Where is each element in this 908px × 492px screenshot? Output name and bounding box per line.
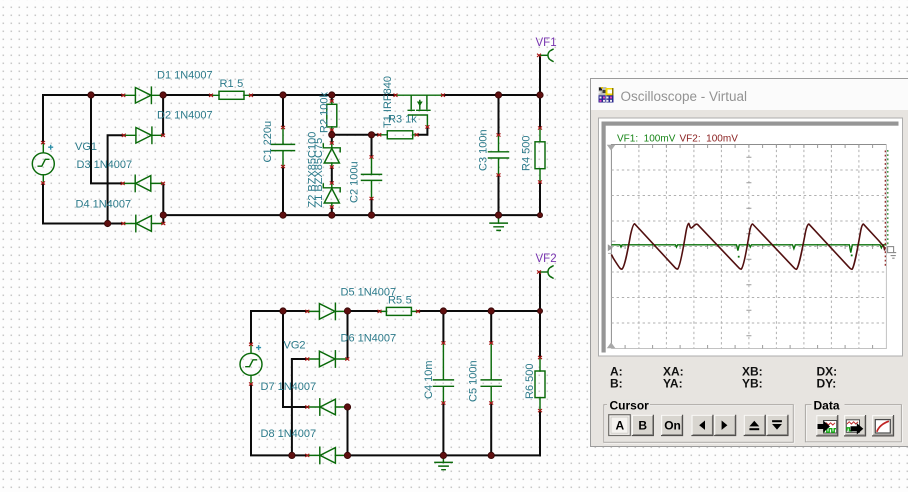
wire D2 anode L-corner <box>108 135 124 223</box>
resistor R4 <box>535 126 545 183</box>
wire R2 bottom node to R3 <box>332 134 379 136</box>
wire D1 cathode to R1 <box>163 94 210 96</box>
svg-text:Cursor: Cursor <box>610 399 650 413</box>
capacitor C2 <box>362 155 382 200</box>
diode D7 <box>305 399 349 415</box>
data button linearize <box>872 415 894 436</box>
wire R1 to T1 drain (via C1,R2 nodes) <box>252 94 396 96</box>
resistor R1 <box>209 91 253 99</box>
ground bottom circuit <box>435 455 452 469</box>
voltage source VG2 <box>240 343 262 386</box>
resistor R3 <box>377 131 418 139</box>
svg-text:A: A <box>616 419 625 433</box>
zener diode Z1 <box>323 141 340 168</box>
capacitor C3 <box>489 133 509 176</box>
wire T1 source to VF1 corner (via C3 node) <box>443 94 540 96</box>
svg-text:VF2: 100mV: VF2: 100mV <box>680 134 739 145</box>
scope trace VF2 red sawtooth <box>611 151 885 270</box>
wire D3 anode down to neg rail <box>162 183 164 223</box>
wire D5 cathode to R5 <box>348 310 380 312</box>
oscilloscope window <box>590 78 908 447</box>
cursor button B <box>632 415 654 436</box>
wire bottom neg rail <box>348 454 541 456</box>
svg-text:R2 100k: R2 100k <box>319 92 331 133</box>
oscilloscope display panel <box>599 118 903 356</box>
wire Z1 Z2 leads <box>331 135 333 215</box>
svg-text:D2 1N4007: D2 1N4007 <box>157 110 213 122</box>
svg-text:R4 500: R4 500 <box>521 136 533 171</box>
scope grid horizontal dashed lines <box>611 170 886 323</box>
svg-text:VG2: VG2 <box>284 340 306 352</box>
diode D1 <box>121 87 163 103</box>
wire rail junction to D1 anode <box>91 94 123 96</box>
svg-text:R15: R15 <box>220 78 244 90</box>
wire VG1 bottom to D4 <box>43 183 123 223</box>
wire rail node to D5 <box>283 310 307 312</box>
wire D7 anode down to neg rail <box>347 407 349 455</box>
svg-text:D8 1N4007: D8 1N4007 <box>261 428 317 440</box>
cursor button left arrow <box>691 415 713 436</box>
capacitor C4 <box>433 341 453 404</box>
svg-text:VF1: VF1 <box>536 37 557 49</box>
wire node to D3 vertical <box>91 95 122 183</box>
cursor group box <box>604 399 794 444</box>
svg-text:R55: R55 <box>388 295 412 307</box>
diode D5 <box>305 303 347 319</box>
wire VG2 bottom to D8 <box>251 384 307 455</box>
resistor R2 <box>327 99 337 131</box>
scope axis markers <box>607 145 616 348</box>
scope measurement labels <box>610 365 837 391</box>
capacitor C1 <box>272 126 295 168</box>
scope plot frame <box>611 145 886 349</box>
node dots bottom circuit <box>280 308 286 314</box>
cursor button A (selected) <box>609 415 631 436</box>
diode D8 <box>305 447 349 463</box>
mosfet T1 IRF840 <box>394 94 446 129</box>
oscilloscope title icon <box>599 87 614 103</box>
cursor button right arrow <box>714 415 736 436</box>
svg-text:D3 1N4007: D3 1N4007 <box>77 159 133 171</box>
wire D6 anode L-corner <box>292 359 307 455</box>
data button export curve <box>844 415 866 436</box>
svg-text:VG1: VG1 <box>75 141 97 153</box>
node dots top circuit <box>88 92 94 98</box>
cursor button to-top <box>744 415 766 436</box>
diode D4 <box>121 215 165 231</box>
wire R4 leads <box>539 95 541 215</box>
svg-text:Data: Data <box>814 399 840 413</box>
wire VG1 top to rail <box>43 95 91 143</box>
svg-text:YB:: YB: <box>742 377 763 391</box>
svg-text:Oscilloscope - Virtual: Oscilloscope - Virtual <box>621 89 748 104</box>
svg-text:R6 500: R6 500 <box>524 364 536 399</box>
wire R3 to T1 gate <box>417 127 427 135</box>
svg-text:C1 220u: C1 220u <box>262 121 274 163</box>
wire C5 leads <box>490 311 492 455</box>
output pin VF1 <box>537 49 553 61</box>
wire neg rail <box>163 214 540 216</box>
wire C2 leads <box>371 135 373 215</box>
wire D1-D2 cathodes vertical <box>162 95 164 135</box>
cursor button to-bottom <box>766 415 788 436</box>
svg-text:C4 10m: C4 10m <box>423 360 435 399</box>
voltage source VG1 <box>32 141 54 185</box>
svg-text:YA:: YA: <box>663 377 683 391</box>
svg-text:C2 100u: C2 100u <box>349 161 361 203</box>
wire VF1 pin down <box>539 57 541 95</box>
wire VG2 top to rail <box>251 311 283 344</box>
svg-text:DY:: DY: <box>817 377 837 391</box>
resistor R5 <box>378 307 421 315</box>
ground top circuit <box>490 215 507 230</box>
wire C3 leads <box>498 95 500 215</box>
wire node to D7 vertical <box>283 311 307 407</box>
wire R5 to VF2 corner (via C4,C5 nodes) <box>419 310 541 312</box>
svg-text:T1 IRF840: T1 IRF840 <box>382 76 394 128</box>
svg-text:D7 1N4007: D7 1N4007 <box>261 381 317 393</box>
svg-text:D6 1N4007: D6 1N4007 <box>341 333 397 345</box>
diode D6 <box>305 351 349 367</box>
scope cursor handle glyph <box>888 247 897 259</box>
svg-text:D1 1N4007: D1 1N4007 <box>157 70 213 82</box>
svg-text:B: B <box>638 419 647 433</box>
wire R6 leads <box>539 311 541 455</box>
scope grid vertical dashed lines <box>639 145 859 349</box>
svg-text:VF2: VF2 <box>536 253 557 265</box>
wire C4 leads <box>442 311 444 455</box>
svg-text:C3 100n: C3 100n <box>478 129 490 171</box>
scope axis tick marks <box>625 145 873 349</box>
data group box <box>805 399 902 443</box>
wire C1 leads <box>282 95 284 215</box>
svg-text:C5 100n: C5 100n <box>468 360 480 402</box>
scope trace VF1 green <box>612 150 888 258</box>
capacitor C5 <box>481 341 501 404</box>
wire D5-D6 cathodes vertical <box>347 311 349 359</box>
svg-text:B:: B: <box>610 377 623 391</box>
svg-text:D4 1N4007: D4 1N4007 <box>76 199 132 211</box>
wire R2 leads <box>331 95 333 135</box>
svg-text:On: On <box>664 419 681 433</box>
diode D2 <box>122 127 165 143</box>
diode D3 <box>121 175 165 191</box>
svg-text:Z2 BZX85C100: Z2 BZX85C100 <box>307 132 319 208</box>
data button import curve <box>816 415 838 436</box>
zener diode Z2 <box>323 181 340 208</box>
svg-text:VF1: 100mV: VF1: 100mV <box>617 134 676 145</box>
wire VF2 pin down <box>539 273 541 311</box>
resistor R6 <box>535 356 545 412</box>
output pin VF2 <box>537 266 553 278</box>
cursor button On <box>661 415 683 436</box>
